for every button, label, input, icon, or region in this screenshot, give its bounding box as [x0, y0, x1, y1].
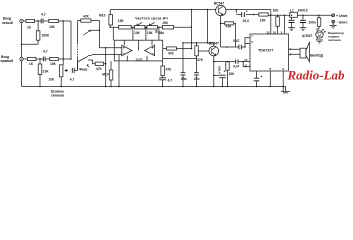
svg-text:47К: 47К [83, 14, 90, 18]
wire: M10-1 connections [109, 10, 111, 28]
svg-text:L1: L1 [290, 8, 294, 12]
wire: Q1 collector junction down [235, 10, 237, 13]
svg-text:ВС547: ВС547 [214, 2, 224, 6]
transistor Q2 BC547 [209, 46, 219, 56]
wiper tap arrow 47K [83, 30, 90, 35]
svg-text:1К: 1К [29, 62, 34, 66]
wire: 100n cap down x300 [302, 15, 304, 27]
wire: vertical to pot x63.2 [62, 21, 64, 65]
capacitor small row [155, 31, 157, 32]
resistor LED [317, 18, 321, 27]
wire: left input to R [23, 20, 41, 22]
resistor 10K (right in) [50, 57, 59, 60]
svg-text:TL072: TL072 [136, 58, 144, 61]
capacitor 4.7 (x162.6) [159, 78, 166, 80]
speaker [300, 48, 306, 58]
resistor 47K vertical x162.6 [161, 66, 165, 76]
transistor Q1 emitter [220, 16, 222, 48]
ground (main rail end) [281, 87, 290, 93]
ground -U [330, 25, 337, 28]
wire: 47.0 cap stubs [256, 71, 258, 87]
ground T x289.5 [288, 28, 295, 31]
capacitor 220.0 [219, 75, 225, 78]
svg-text:15К: 15К [118, 19, 125, 23]
connector: left input [20, 19, 23, 22]
svg-text:4,7: 4,7 [70, 78, 75, 82]
svg-text:10К: 10К [43, 70, 50, 74]
svg-text:10,0: 10,0 [243, 19, 250, 23]
wire: cap to switch pivot [77, 58, 79, 70]
wire: fase resistor link [92, 60, 106, 64]
capacitor 100n [300, 20, 306, 22]
svg-text:220,0: 220,0 [218, 66, 222, 74]
resistor R 1K (right in) [28, 57, 37, 60]
wire: M10-2 vertical [110, 61, 112, 87]
wire: IC outputs to speaker [289, 49, 301, 54]
connector: right input [20, 57, 23, 60]
resistor 15K A [119, 25, 132, 29]
resistor 10K (left in) [49, 19, 59, 22]
resistor 47K (fb) [225, 22, 234, 25]
op-amp U1A triangle [122, 45, 132, 56]
wire: pot bottom [60, 77, 62, 87]
wire: horizontal y42.9 [183, 42, 214, 44]
svg-text:TDA7377: TDA7377 [258, 49, 273, 53]
ground under LED [316, 40, 323, 43]
svg-text:47К: 47К [226, 24, 233, 28]
wire: row to box verticals [113, 27, 159, 40]
potentiometer freq A [134, 25, 145, 29]
svg-text:Radio-Lab: Radio-Lab [287, 67, 346, 82]
svg-text:- Uпит.: - Uпит. [337, 20, 348, 24]
terminal -U [332, 20, 335, 23]
transistor Q2 base stub [198, 50, 209, 52]
capacitor 68n [181, 73, 186, 75]
inductor L1 [290, 12, 298, 17]
resistor 10K vertical (right branch) [38, 64, 42, 75]
resistor M10 (top) [109, 15, 113, 26]
transistor Q1 BC547 [216, 5, 226, 15]
svg-text:10К: 10К [50, 62, 57, 66]
capacitor 22n [194, 73, 199, 75]
capacitor 4.7 (left in) [41, 19, 43, 24]
svg-text:13: 13 [266, 30, 270, 34]
resistor 15K B [162, 25, 173, 29]
resistor M10-2 (bottom) [109, 70, 113, 80]
svg-text:левый: левый [2, 21, 13, 25]
svg-text:22н: 22н [194, 77, 200, 81]
svg-text:АЛ307: АЛ307 [302, 34, 312, 38]
svg-text:питания: питания [328, 38, 341, 42]
svg-text:4,7: 4,7 [41, 13, 46, 17]
op-amp U1B triangle [145, 45, 155, 56]
resistor 100K vertical (left) [36, 31, 40, 40]
resistor 47K vertical (Q2) [195, 46, 199, 56]
wire: 68n chain x183.8 [182, 43, 184, 87]
potentiometer freq B [147, 25, 158, 29]
svg-text:10К: 10К [260, 19, 267, 23]
svg-text:0,47: 0,47 [233, 65, 240, 69]
svg-text:ВЫХОД: ВЫХОД [310, 54, 323, 58]
svg-text:правый: правый [1, 59, 14, 63]
IC TDA7377 box [250, 34, 289, 71]
svg-text:15К: 15К [162, 21, 169, 25]
wire: 22n chain x196.5 [196, 43, 198, 87]
svg-text:47К: 47К [96, 67, 103, 71]
resistor 47K (filter out) [167, 47, 177, 50]
svg-text:100К: 100К [42, 33, 51, 37]
svg-text:4,7: 4,7 [168, 78, 173, 82]
svg-text:ВС547: ВС547 [209, 41, 219, 45]
op-amp internal tip link [132, 50, 145, 52]
wire: filter out to 47K [163, 48, 192, 50]
svg-text:10К: 10К [147, 31, 154, 35]
resistor 10K (supply) [259, 13, 268, 16]
wire: x119 vertical [118, 61, 120, 87]
capacitor 0.47-2 [236, 59, 238, 63]
pot wiper arrow [65, 69, 68, 71]
wire: filter top row y28.8 [91, 27, 192, 30]
resistor 10K vertical x229 [226, 62, 229, 70]
wire: 10.0 cap / supply mid line [236, 14, 331, 17]
LED AL307 [316, 31, 323, 38]
wire: right input chain [23, 58, 71, 60]
svg-text:10К: 10К [273, 8, 280, 12]
wire: 0.47-1 line y47 [221, 38, 251, 47]
wire: pin5 stub [245, 43, 250, 45]
svg-text:10К: 10К [49, 25, 56, 29]
svg-text:47К: 47К [197, 58, 204, 62]
svg-text:68н: 68н [181, 77, 187, 81]
wire: 47K to opamp input 1 [78, 21, 123, 48]
wire: 47K left vertical x77.5 [77, 21, 79, 43]
capacitor 1000.0 [289, 20, 295, 22]
svg-text:М10: М10 [102, 72, 109, 76]
wire: 47K/4.7 chain x162.6 [162, 61, 164, 87]
wire: 220.0 cap branch [214, 75, 223, 86]
ground T x300 [300, 28, 307, 31]
svg-text:10: 10 [273, 30, 277, 34]
svg-text:100н: 100н [308, 21, 316, 25]
svg-text:Фаза: Фаза [79, 67, 87, 71]
wire: R 10K (x229) bottom [227, 70, 229, 86]
transistor Q2 emitter [213, 56, 215, 87]
wire: -U ground stub [332, 23, 334, 25]
transistor Q2 collector [213, 43, 215, 46]
node: input common vertical wire [21, 23, 23, 87]
capacitor 4.7 (wiper) [72, 68, 74, 73]
terminal +U [332, 14, 335, 17]
svg-text:11: 11 [244, 63, 247, 67]
svg-text:47К: 47К [168, 51, 175, 55]
ground rail (bottom) [22, 86, 286, 88]
wire: 47K fb top [221, 23, 236, 47]
wire: summing vertical x71 [70, 21, 72, 59]
wire: LED chain [317, 15, 319, 39]
capacitor 10.0 + [242, 12, 245, 17]
capacitor 4.7 (right in) [43, 57, 45, 62]
resistor R 1K (left in) [26, 19, 35, 22]
wire: x207.4 divider vertical [206, 10, 208, 43]
svg-text:10К: 10К [229, 72, 236, 76]
IC pin numbers [244, 30, 291, 71]
resistor 47K (top) [81, 19, 91, 22]
wire: 0.47-2 node [214, 62, 250, 67]
svg-text:68н: 68н [159, 31, 165, 35]
Фаза arrow [87, 65, 89, 68]
svg-text:1К: 1К [27, 25, 32, 29]
switch Фаза diagonal [78, 56, 92, 62]
svg-text:0,47: 0,47 [233, 39, 240, 43]
svg-text:12: 12 [244, 58, 248, 62]
wire: x105.7 vertical [105, 48, 107, 87]
wire: top long rail y9.6 [110, 10, 271, 16]
svg-text:сигнала: сигнала [51, 94, 64, 98]
resistor 10K vertical (pin10) [276, 17, 280, 27]
wire: top vertical resistor branch [37, 21, 39, 44]
capacitor 0.47-1 [239, 45, 241, 50]
wire: IC top pin verticals [271, 15, 285, 34]
wire: switch contact to op input 2 [92, 54, 122, 56]
op-amp internal pin wires [124, 40, 152, 61]
op-amp box input wires [114, 48, 122, 61]
wire: bottom vertical resistor branch [39, 59, 41, 87]
svg-text:1000,0: 1000,0 [298, 8, 308, 12]
svg-text:М10: М10 [99, 13, 106, 17]
svg-text:4,7: 4,7 [43, 50, 48, 54]
wire: input ground link y44.2 [22, 43, 39, 45]
wire: top chain cap to summing [43, 20, 71, 22]
capacitor 47.0 [254, 78, 260, 81]
resistor 47K (fase) [95, 62, 103, 65]
wire: 1000.0 cap down x289.5 [291, 15, 293, 27]
label: Индикатор подачи питания [328, 31, 345, 42]
wire: box bottom out y58.6 [163, 58, 197, 60]
potentiometer level 10K [60, 65, 63, 77]
svg-text:47К: 47К [166, 67, 173, 71]
svg-text:10К: 10К [134, 31, 141, 35]
wire: IC bottom pins to ground [270, 71, 283, 91]
wire: vertical x191.5 [191, 10, 193, 49]
svg-text:10К: 10К [49, 78, 56, 82]
svg-text:+ Uпит.: + Uпит. [336, 14, 348, 18]
wire: pot wiper to cap [65, 62, 78, 70]
op-amp IC box TL072 [114, 40, 162, 61]
